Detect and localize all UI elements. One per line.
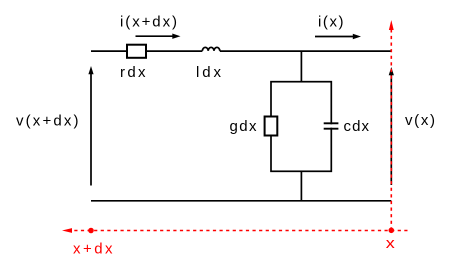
svg-text:v(x+dx): v(x+dx) [16,113,79,130]
wire top-right segment [220,50,392,52]
svg-text:cdx: cdx [344,118,370,135]
wire between rdx and ldx [146,50,202,52]
arrow v(x+dx) [88,66,93,186]
resistor rdx [127,45,146,58]
arrow v(x) [389,67,394,185]
arrow i(x+dx) [136,34,181,39]
arrow i(x) [315,34,361,39]
red dashed axis horizontal [70,230,408,232]
svg-text:i(x+dx): i(x+dx) [120,13,177,30]
node x+dx marker [88,228,94,234]
wire shunt stub top [300,51,302,82]
inductor ldx [202,47,219,51]
svg-text:gdx: gdx [230,118,258,135]
resistor gdx [265,117,278,136]
wire top-left segment [91,50,127,52]
capacitor cdx [324,123,339,128]
wire parallel box [271,82,331,172]
node x marker [389,228,395,234]
wire shunt stub bottom [300,171,302,201]
svg-text:rdx: rdx [120,64,146,81]
red arrowhead left [62,228,72,233]
svg-text:x: x [386,235,396,252]
svg-text:v(x): v(x) [405,112,435,129]
capacitor cdx gap [327,124,336,127]
red arrowhead up [389,20,394,30]
red dashed axis vertical at x [390,30,392,231]
wire bottom [91,200,391,202]
